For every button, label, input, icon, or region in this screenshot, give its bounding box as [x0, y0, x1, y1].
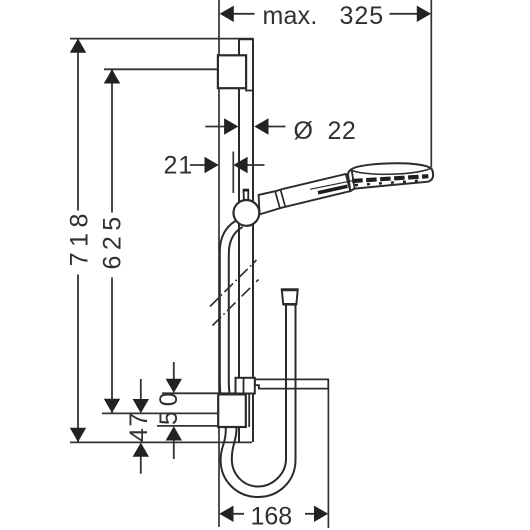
- shower head: [348, 163, 433, 191]
- svg-text:168: 168: [251, 502, 293, 530]
- dimension max.325 line: [233, 13, 418, 15]
- svg-text:625: 625: [99, 211, 127, 269]
- arrow 625 bottom: [104, 399, 120, 413]
- break mark dash-dot line 1: [210, 260, 257, 307]
- hose inner line: [229, 227, 286, 487]
- arrow 50 bottom: [166, 426, 182, 440]
- arrow 21 right: [233, 157, 247, 173]
- arrow 168 left: [219, 506, 233, 522]
- extension line 21: [232, 152, 234, 194]
- neck line 2: [352, 170, 355, 189]
- spray nozzle band: [352, 176, 428, 181]
- dimension 50: [173, 362, 175, 459]
- extension line clamp bottom (50): [162, 392, 236, 394]
- break mark dash-dot line 2: [213, 280, 259, 326]
- extension line right of head (max.325): [430, 0, 432, 167]
- dimension 625 line: [111, 70, 113, 413]
- extension line top bracket (625): [104, 68, 218, 70]
- bottom bracket step: [248, 394, 250, 427]
- neck line 1: [346, 174, 350, 191]
- handle ring line 1: [275, 191, 280, 208]
- handle ring line 2: [281, 190, 286, 207]
- handle dark slash: [318, 186, 348, 193]
- extension line rail bottom (718/47): [70, 441, 252, 443]
- head top face lens line: [351, 168, 431, 174]
- dimension 21: [190, 164, 265, 166]
- handle crease line: [310, 181, 352, 190]
- nozzle nubs row: [355, 180, 426, 185]
- arrow 625 top: [104, 69, 120, 83]
- bottom wall bracket: [218, 394, 246, 427]
- extension line bottom bracket center (625/47): [102, 412, 218, 414]
- extension line bracket bottom (50): [157, 425, 218, 427]
- bar shelf: [255, 379, 328, 388]
- clamp inner line: [243, 378, 245, 394]
- arrow max325 right: [417, 6, 431, 22]
- arrow d22 right: [254, 118, 268, 134]
- arrow 718 bottom: [70, 428, 86, 442]
- top bracket step: [246, 88, 253, 90]
- svg-text:50: 50: [155, 387, 183, 425]
- svg-text:718: 718: [65, 208, 93, 266]
- arrow d22 left: [224, 118, 238, 134]
- dimension 47: [140, 379, 142, 474]
- arrow 718 top: [70, 39, 86, 53]
- rail tube: [238, 39, 254, 442]
- hose outer line: [220, 221, 296, 497]
- svg-text:22: 22: [328, 117, 357, 145]
- arrow 21 left: [205, 157, 219, 173]
- ball of holder: [234, 200, 260, 226]
- dimension 718 line: [77, 39, 79, 442]
- hand shower handle: [259, 174, 351, 214]
- svg-text:21: 21: [164, 152, 194, 180]
- extension line right of bar (168): [327, 389, 329, 528]
- wall extension line: [218, 0, 220, 527]
- arrow max325 left: [220, 6, 234, 22]
- hose conical nut: [282, 290, 298, 305]
- top wall bracket: [218, 55, 246, 88]
- clamp on rail: [236, 378, 255, 394]
- arrow 168 right: [314, 506, 328, 522]
- arrow 47 bottom: [133, 443, 149, 457]
- svg-text:325: 325: [340, 2, 385, 30]
- svg-text:Ø: Ø: [294, 117, 313, 145]
- arrow 50 top: [166, 379, 182, 393]
- svg-text:max.: max.: [263, 2, 318, 30]
- holder pin: [244, 191, 249, 203]
- extension line rail top (718): [70, 38, 254, 40]
- svg-text:47: 47: [125, 411, 153, 442]
- dimension diameter 22: [205, 126, 285, 128]
- dimension 168: [232, 513, 315, 515]
- arrow 47 top: [133, 399, 149, 413]
